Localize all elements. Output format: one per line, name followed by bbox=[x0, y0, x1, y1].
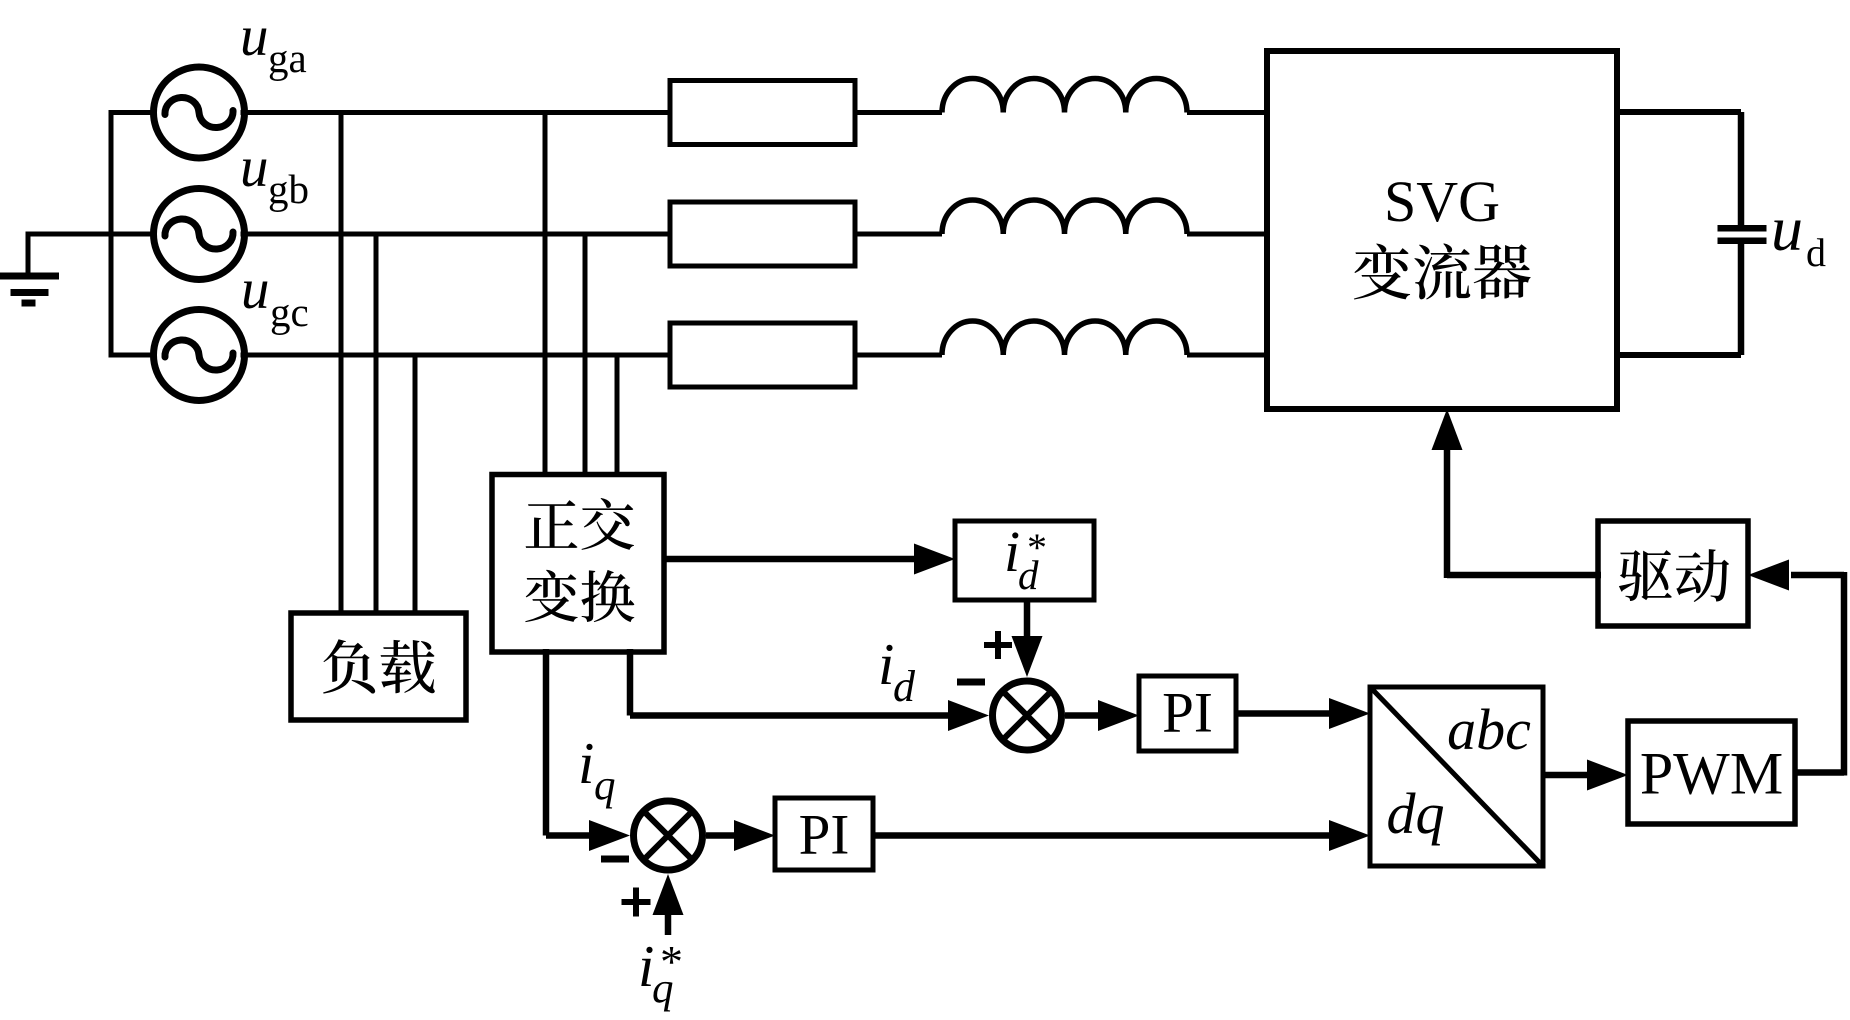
load box (negative load) bbox=[291, 613, 466, 720]
svg-text:d: d bbox=[1018, 552, 1039, 598]
wire: bus stub to source u_gb bbox=[111, 232, 158, 237]
svg-text:ga: ga bbox=[268, 35, 307, 81]
wire: id* to summing junction bbox=[1012, 600, 1043, 677]
PWM modulator bbox=[1628, 721, 1795, 824]
wire: driver to SVG converter bbox=[1432, 409, 1602, 578]
svg-text:PWM: PWM bbox=[1640, 741, 1783, 807]
wire: resistor Rc to inductor Lc bbox=[855, 353, 942, 358]
wire: inductor La to SVG converter bbox=[1187, 110, 1267, 115]
AC voltage source u_ga bbox=[154, 67, 245, 158]
svg-text:SVG: SVG bbox=[1384, 169, 1500, 234]
svg-text:d: d bbox=[893, 662, 916, 711]
svg-text:u: u bbox=[1771, 193, 1803, 264]
wire: PI (q) to dq/abc bbox=[873, 820, 1370, 851]
resistor Ra bbox=[670, 81, 855, 145]
wire: transform to id* reference bbox=[664, 544, 955, 575]
wire: PWM to driver bbox=[1748, 560, 1844, 776]
wire: bus stub to source u_gc bbox=[111, 353, 158, 358]
wire: left neutral bus bbox=[109, 110, 114, 358]
wire: tap phase c to load bbox=[413, 355, 418, 613]
SVG converter U1 bbox=[1267, 51, 1617, 409]
wire: phase b source to resistor bbox=[241, 232, 671, 237]
wire: capacitor bottom to SVG converter bbox=[1738, 244, 1745, 355]
svg-text:PI: PI bbox=[799, 804, 850, 867]
driver box bbox=[1598, 521, 1748, 626]
wire: tap phase c to transform bbox=[615, 355, 620, 475]
resistor Rc bbox=[670, 323, 855, 387]
ground bbox=[0, 232, 114, 307]
svg-text:i: i bbox=[578, 730, 594, 796]
AC voltage source u_gc bbox=[154, 310, 245, 401]
svg-text:u: u bbox=[240, 5, 269, 68]
svg-text:PI: PI bbox=[1162, 682, 1213, 745]
svg-text:d: d bbox=[1806, 230, 1826, 275]
svg-text:u: u bbox=[240, 136, 269, 199]
dq to abc transform box bbox=[1370, 687, 1543, 866]
wire: tap phase a to load bbox=[339, 113, 344, 614]
orthogonal transform box bbox=[492, 475, 664, 653]
wire: summing junction to PI (q-axis) bbox=[706, 820, 775, 851]
wire: dq/abc to PWM bbox=[1543, 760, 1628, 791]
inductor Lb bbox=[942, 200, 1187, 234]
capacitor Cd bbox=[1718, 225, 1767, 232]
label - (minus) bbox=[957, 679, 985, 686]
summing junction S1 (d-axis) bbox=[993, 681, 1062, 750]
wire: SVG converter to capacitor top bbox=[1617, 109, 1741, 115]
label + (plus) bbox=[984, 631, 1012, 659]
PI controller (d-axis) bbox=[1139, 676, 1236, 751]
wire: phase a source to resistor bbox=[241, 110, 671, 115]
svg-text:abc: abc bbox=[1447, 697, 1531, 762]
label + (plus, q-axis) bbox=[622, 888, 651, 917]
svg-text:dq: dq bbox=[1387, 781, 1445, 846]
svg-text:i: i bbox=[878, 631, 894, 697]
resistor Rb bbox=[670, 202, 855, 266]
wire: summing junction to PI (d-axis) bbox=[1065, 700, 1139, 731]
wire: tap phase b to transform bbox=[583, 234, 588, 475]
wire: resistor Rb to inductor Lb bbox=[855, 232, 942, 237]
wire: i_d from transform to summing junction bbox=[630, 649, 989, 731]
inductor La bbox=[942, 79, 1187, 113]
wire: bus stub to source u_ga bbox=[111, 110, 158, 115]
wire: inductor Lc to SVG converter bbox=[1187, 353, 1267, 358]
wire: i_q* reference into summing junction bbox=[653, 874, 684, 935]
inductor Lc bbox=[942, 321, 1187, 355]
svg-text:u: u bbox=[241, 258, 270, 321]
wire: inductor Lb to SVG converter bbox=[1187, 232, 1267, 237]
wire: PI (d) to dq/abc bbox=[1236, 698, 1370, 729]
wire: tap phase b to load bbox=[374, 234, 379, 613]
summing junction S2 (q-axis) bbox=[634, 801, 703, 870]
svg-text:gc: gc bbox=[270, 289, 309, 335]
wire: i_q from transform to summing junction bbox=[546, 649, 630, 851]
label - (minus, q-axis) bbox=[601, 856, 629, 863]
wire: phase c source to resistor bbox=[241, 353, 671, 358]
wire: tap phase a to transform bbox=[543, 113, 548, 475]
PI controller (q-axis) bbox=[775, 798, 873, 870]
svg-text:q: q bbox=[652, 965, 674, 1012]
reference box i_d* bbox=[955, 519, 1094, 600]
AC voltage source u_gb bbox=[154, 189, 245, 280]
svg-text:gb: gb bbox=[268, 166, 309, 212]
wire: resistor Ra to inductor La bbox=[855, 110, 942, 115]
svg-text:q: q bbox=[594, 762, 616, 809]
